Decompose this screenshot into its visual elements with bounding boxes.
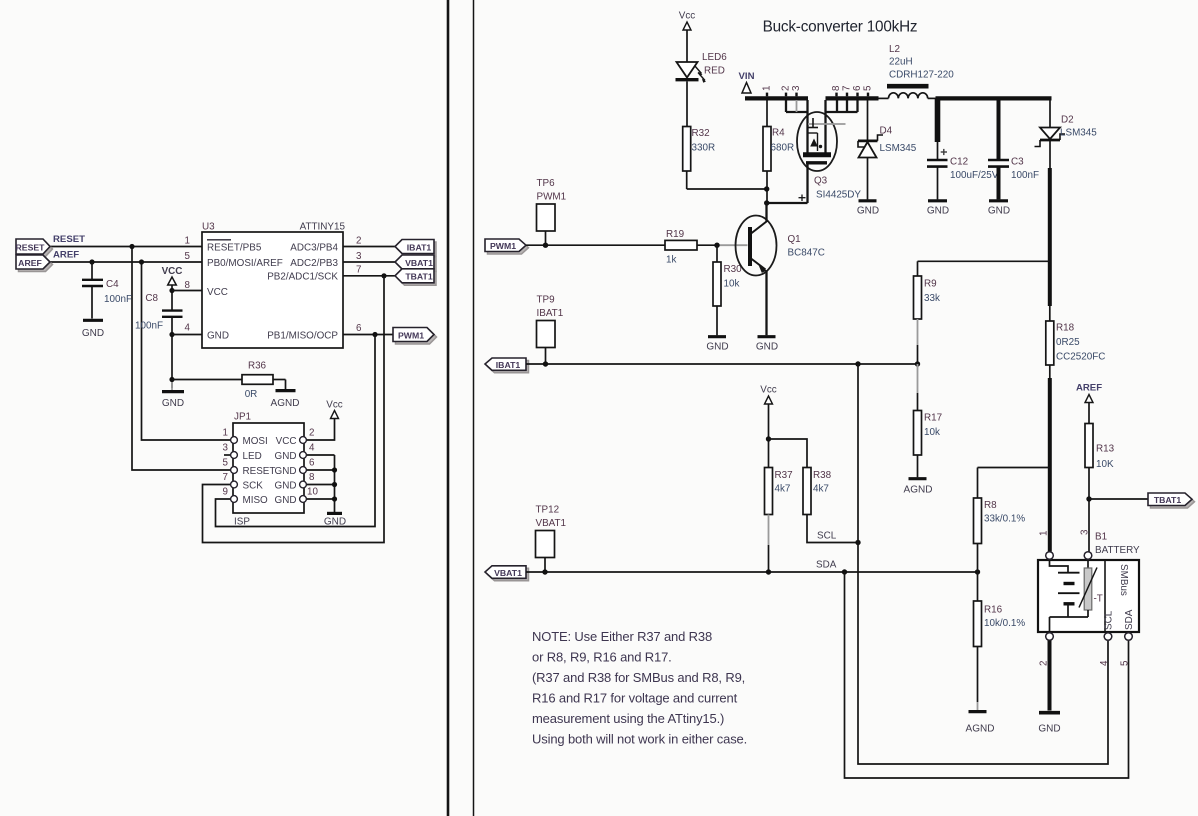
svg-text:Q1: Q1 (788, 234, 802, 245)
svg-text:7: 7 (223, 472, 228, 483)
svg-text:GND: GND (275, 495, 297, 506)
svg-text:ISP: ISP (234, 517, 250, 528)
svg-text:Vcc: Vcc (679, 11, 696, 22)
svg-text:-T: -T (1094, 594, 1103, 605)
svg-text:GND: GND (857, 206, 879, 217)
svg-text:3: 3 (791, 85, 802, 91)
flag VBAT1 left page (398, 257, 437, 272)
Q3 pin numbers rotated (762, 85, 874, 91)
flag TBAT1 right page (1151, 496, 1195, 509)
svg-text:Vcc: Vcc (760, 385, 777, 396)
svg-text:2: 2 (309, 428, 314, 439)
wire RESET drop to JP1 pin5 (132, 247, 233, 471)
svg-text:MISO: MISO (243, 495, 269, 506)
svg-text:AGND: AGND (966, 724, 995, 735)
svg-text:SCL: SCL (817, 531, 837, 542)
svg-text:VBAT1: VBAT1 (494, 568, 522, 578)
svg-text:5: 5 (1120, 660, 1131, 666)
svg-text:0R25: 0R25 (1056, 337, 1080, 348)
flag RESET (19, 242, 53, 257)
flag PWM1 right page (488, 242, 529, 255)
ground GND under battery (1039, 711, 1060, 715)
flag VBAT1 right page (488, 568, 529, 581)
svg-text:GND: GND (988, 206, 1010, 217)
svg-text:R37: R37 (775, 470, 793, 481)
svg-text:10: 10 (307, 487, 318, 498)
svg-text:D2: D2 (1061, 115, 1074, 126)
svg-text:GND: GND (1038, 724, 1060, 735)
IC U3 ATTINY15 box (202, 232, 343, 348)
node junction pin6/MISO riser (372, 332, 377, 337)
svg-text:R30: R30 (724, 264, 743, 275)
svg-text:BC847C: BC847C (788, 248, 825, 259)
svg-text:GND: GND (756, 342, 778, 353)
svg-text:measurement using the ATtiny15: measurement using the ATtiny15.) (532, 711, 724, 726)
battery cell symbol (1050, 560, 1069, 572)
svg-text:680R: 680R (771, 143, 795, 154)
wire pin4 stub (172, 334, 202, 336)
node junction AREF-MOSI (139, 259, 144, 264)
svg-text:R18: R18 (1056, 323, 1075, 334)
node junction gate/collector (764, 200, 769, 205)
svg-text:GND: GND (927, 206, 949, 217)
capacitor C4 (91, 262, 93, 279)
svg-text:GND: GND (324, 517, 346, 528)
svg-text:SMBus: SMBus (1118, 564, 1129, 596)
JP1 GND pins common wire (304, 454, 335, 456)
svg-text:R36: R36 (248, 361, 267, 372)
resistor R18 0R25 (1049, 306, 1051, 321)
svg-text:4k7: 4k7 (813, 484, 829, 495)
svg-text:1: 1 (762, 86, 773, 91)
svg-text:6: 6 (852, 85, 863, 91)
svg-text:LSM345: LSM345 (880, 143, 917, 154)
node junction pin7/SCK riser (381, 273, 386, 278)
capacitor C8 (162, 309, 183, 311)
svg-text:R16 and R17 for voltage and cu: R16 and R17 for voltage and current (532, 691, 738, 706)
svg-text:R9: R9 (924, 279, 937, 290)
svg-text:AGND: AGND (271, 398, 300, 409)
svg-text:4k7: 4k7 (775, 484, 791, 495)
svg-text:SDA: SDA (816, 560, 837, 571)
resistor R9 33k (918, 260, 1050, 262)
svg-text:MOSI: MOSI (243, 436, 268, 447)
diode LED6 RED (677, 62, 698, 78)
resistor R30 10k (716, 245, 718, 262)
svg-text:AREF: AREF (18, 258, 42, 268)
resistor R38 4k7 (803, 468, 811, 515)
flag AREF (19, 258, 53, 272)
svg-text:100nF: 100nF (1011, 170, 1039, 181)
wire MISO net rectangle (216, 335, 376, 527)
svg-text:8: 8 (185, 280, 191, 291)
svg-text:AGND: AGND (904, 485, 933, 496)
svg-text:C4: C4 (106, 279, 119, 290)
svg-text:PB1/MISO/OCP: PB1/MISO/OCP (267, 330, 338, 341)
diode D2 SM345 (1049, 100, 1051, 128)
wire thick R18 to battery (1048, 378, 1052, 552)
svg-text:ADC3/PB4: ADC3/PB4 (290, 242, 338, 253)
svg-text:LSM345: LSM345 (1060, 128, 1097, 139)
svg-text:R13: R13 (1096, 444, 1115, 455)
svg-text:VBAT1: VBAT1 (405, 258, 433, 268)
svg-text:GND: GND (275, 466, 297, 477)
svg-text:TP6: TP6 (537, 178, 556, 189)
svg-text:6: 6 (309, 458, 315, 469)
svg-text:SCK: SCK (243, 480, 264, 491)
wire AREF/MOSI drop to JP1 pin1 (142, 262, 234, 440)
svg-text:R4: R4 (772, 128, 785, 139)
wire pin8 stub (172, 290, 202, 292)
svg-text:R38: R38 (813, 470, 832, 481)
header JP1 box (233, 423, 304, 513)
svg-text:AREF: AREF (53, 250, 79, 261)
node junction R19/R30/base (714, 243, 719, 248)
inductor L2 22uH (887, 84, 929, 89)
wire VBAT1/SDA net (526, 571, 978, 573)
wire U3 pin3 to VBAT1 (343, 261, 395, 263)
svg-text:NOTE: Use Either R37 and R38: NOTE: Use Either R37 and R38 (532, 629, 712, 644)
svg-text:1k: 1k (666, 255, 676, 266)
page divider lines (447, 0, 450, 816)
svg-text:100nF: 100nF (104, 294, 132, 305)
ground AGND under R17 (909, 477, 927, 480)
svg-text:GND: GND (706, 342, 728, 353)
ground GND under JP1 (327, 512, 342, 515)
wire PWM1 net (526, 244, 665, 246)
svg-text:PWM1: PWM1 (537, 192, 567, 203)
svg-text:ADC2/PB3: ADC2/PB3 (290, 258, 338, 269)
svg-text:or R8, R9, R16 and R17.: or R8, R9, R16 and R17. (532, 650, 672, 665)
svg-text:SDA: SDA (1124, 609, 1135, 630)
node junction R13/TBAT1/pin3 (1086, 496, 1091, 501)
svg-text:TBAT1: TBAT1 (1154, 495, 1182, 505)
resistor R16 10k/0.1% (977, 572, 979, 601)
svg-text:8: 8 (309, 472, 315, 483)
flag IBAT1 right page (488, 361, 529, 373)
svg-text:LED: LED (243, 451, 262, 462)
svg-text:BATTERY: BATTERY (1095, 545, 1140, 556)
svg-text:9: 9 (223, 487, 228, 498)
node junction R37/R38 split (766, 436, 771, 441)
svg-text:5: 5 (223, 458, 229, 469)
svg-text:JP1: JP1 (234, 412, 252, 423)
wire IBAT1 net (526, 363, 918, 365)
diode D4 LSM345 (867, 100, 869, 140)
svg-text:TP12: TP12 (536, 505, 560, 516)
ground GND under C4 (83, 319, 103, 322)
svg-text:2: 2 (356, 236, 361, 247)
svg-text:VCC: VCC (162, 266, 183, 277)
svg-text:RESET: RESET (243, 466, 276, 477)
svg-text:100nF: 100nF (135, 321, 163, 332)
ground AGND under R16 (969, 710, 987, 713)
ground GND under D4 (859, 199, 877, 202)
resistor R8 33k/0.1% (974, 498, 982, 544)
svg-text:VCC: VCC (276, 436, 297, 447)
svg-text:7: 7 (356, 265, 361, 276)
battery pin circles (1046, 552, 1133, 641)
svg-text:PWM1: PWM1 (490, 241, 516, 251)
svg-text:R32: R32 (692, 128, 710, 139)
JP1 right pin2 wire to Vcc (304, 419, 335, 440)
svg-text:GND: GND (162, 398, 184, 409)
svg-text:8: 8 (831, 85, 842, 91)
svg-text:10K: 10K (1096, 459, 1114, 470)
svg-text:1: 1 (185, 236, 190, 247)
wire SCK net rectangle (203, 276, 385, 543)
svg-text:R17: R17 (924, 413, 942, 424)
node junction RESET (129, 244, 134, 249)
svg-text:330R: 330R (692, 143, 716, 154)
svg-text:IBAT1: IBAT1 (407, 242, 432, 252)
resistor R17 10k (917, 364, 919, 393)
ground GND under R30 (708, 335, 726, 338)
svg-text:C3: C3 (1011, 157, 1024, 168)
svg-text:Q3: Q3 (814, 176, 828, 187)
resistor R13 10K (1085, 424, 1093, 468)
svg-text:Vcc: Vcc (326, 400, 343, 411)
svg-text:22uH: 22uH (889, 57, 913, 68)
svg-text:SI4425DY: SI4425DY (816, 190, 861, 201)
node junction AREF-C4 (89, 259, 94, 264)
svg-text:5: 5 (185, 251, 191, 262)
JP1 pin circles (231, 437, 307, 503)
svg-text:B1: B1 (1095, 532, 1108, 543)
wire SCL net (807, 515, 858, 543)
svg-text:IBAT1: IBAT1 (496, 360, 521, 370)
svg-text:GND: GND (207, 330, 229, 341)
svg-text:GND: GND (82, 328, 104, 339)
wire thick D2 to R18 (1048, 168, 1052, 306)
svg-text:R8: R8 (984, 500, 997, 511)
svg-text:L2: L2 (889, 44, 900, 55)
JP1 pin3 LED stub (224, 454, 233, 456)
flag TBAT1 left page (398, 271, 437, 285)
wire VIN bus segment 1 (745, 96, 808, 100)
svg-text:1: 1 (223, 428, 228, 439)
ground GND under Q1 emitter (758, 335, 776, 338)
thermistor -T inside battery (1087, 560, 1089, 568)
wire Q3 gate (806, 164, 808, 203)
svg-text:5: 5 (863, 85, 874, 91)
wire to TBAT1 flag (1089, 498, 1148, 500)
svg-text:GND: GND (275, 451, 297, 462)
svg-text:(R37 and R38 for SMBus and R8,: (R37 and R38 for SMBus and R8, R9, (532, 670, 745, 685)
svg-text:1: 1 (1039, 531, 1050, 536)
svg-text:D4: D4 (880, 126, 893, 137)
svg-text:Buck-converter 100kHz: Buck-converter 100kHz (763, 19, 918, 36)
node junction VCC pin8 (169, 288, 174, 293)
svg-text:3: 3 (356, 251, 362, 262)
svg-text:IBAT1: IBAT1 (537, 308, 564, 319)
svg-text:LED6: LED6 (702, 52, 727, 63)
svg-text:VCC: VCC (207, 287, 228, 298)
wire RESET net (50, 246, 202, 248)
svg-text:R19: R19 (666, 229, 685, 240)
ground GND under C8 line (171, 382, 173, 390)
ground GND under C3 (989, 199, 1008, 202)
svg-text:AREF: AREF (1076, 383, 1102, 394)
flag PWM1 left page (396, 330, 437, 344)
transistor Q1 BC847C (736, 216, 777, 276)
svg-text:RESET: RESET (53, 234, 85, 245)
ground AGND under R36 (276, 389, 296, 392)
svg-text:10k: 10k (724, 279, 740, 290)
svg-text:4: 4 (185, 323, 191, 334)
svg-text:2: 2 (781, 86, 792, 91)
svg-text:C8: C8 (145, 293, 158, 304)
ground GND under C12 (928, 199, 947, 202)
node junction GND pin4 (169, 332, 174, 337)
wire output bus segment 3 (936, 96, 1052, 100)
wire U3 pin2 to IBAT1 (343, 246, 395, 248)
flag IBAT1 left page (398, 242, 437, 256)
wire U3 pin7 to TBAT1 (343, 275, 395, 277)
svg-text:6: 6 (356, 323, 362, 334)
svg-text:ATTINY15: ATTINY15 (300, 222, 346, 233)
svg-text:4: 4 (309, 443, 315, 454)
svg-text:3: 3 (1080, 529, 1091, 535)
resistor R32 330R (683, 127, 691, 172)
wire SDA drop to battery pin5 (845, 572, 1129, 778)
wire thick battery pin2 to GND (1048, 641, 1052, 711)
wire branch to R8 (978, 467, 1050, 469)
battery pin numbers rotated (1039, 529, 1131, 666)
battery B1 box (1038, 560, 1139, 632)
svg-text:33k: 33k (924, 293, 940, 304)
svg-text:10k: 10k (924, 427, 940, 438)
svg-text:Using both will not work in ei: Using both will not work in either case. (532, 732, 747, 747)
svg-text:3: 3 (223, 443, 229, 454)
wire AREF net (50, 261, 202, 263)
resistor R19 1k (665, 240, 697, 250)
svg-text:SCL: SCL (1104, 610, 1115, 630)
resistor R4 680R (766, 100, 768, 127)
svg-text:100uF/25V: 100uF/25V (950, 170, 999, 181)
capacitor C3 100nF (997, 98, 1001, 159)
svg-text:10k/0.1%: 10k/0.1% (984, 618, 1025, 629)
transistor Q3 SI4425DY P-MOSFET (797, 112, 837, 171)
svg-text:CDRH127-220: CDRH127-220 (889, 70, 954, 81)
svg-text:RESET/PB5: RESET/PB5 (207, 242, 262, 253)
svg-text:R16: R16 (984, 605, 1003, 616)
wire U3 pin6 to PWM1 (343, 334, 393, 336)
capacitor C12 100uF/25V (935, 98, 941, 142)
svg-text:TBAT1: TBAT1 (405, 272, 433, 282)
svg-text:GND: GND (275, 480, 297, 491)
svg-text:VIN: VIN (739, 71, 755, 82)
svg-text:RESET: RESET (16, 242, 46, 252)
svg-text:U3: U3 (202, 222, 215, 233)
node junction R32/R4 (764, 186, 769, 191)
svg-text:C12: C12 (950, 157, 968, 168)
svg-text:PB0/MOSI/AREF: PB0/MOSI/AREF (207, 258, 283, 269)
wire switch-node bus segment 2 (826, 96, 879, 100)
svg-text:VBAT1: VBAT1 (536, 518, 567, 529)
svg-text:0R: 0R (245, 389, 258, 400)
resistor R36 (172, 379, 242, 381)
resistor R37 4k7 (765, 468, 773, 515)
svg-text:33k/0.1%: 33k/0.1% (984, 514, 1025, 525)
Q3 pin ticks on bus (767, 93, 868, 97)
node junction R36 tap (169, 377, 174, 382)
svg-text:4: 4 (1099, 660, 1110, 666)
svg-text:PB2/ADC1/SCK: PB2/ADC1/SCK (267, 272, 338, 283)
svg-text:PWM1: PWM1 (398, 330, 424, 340)
svg-text:7: 7 (842, 86, 853, 91)
svg-text:CC2520FC: CC2520FC (1056, 352, 1105, 363)
svg-text:TP9: TP9 (537, 295, 556, 306)
svg-text:RED: RED (704, 66, 725, 77)
